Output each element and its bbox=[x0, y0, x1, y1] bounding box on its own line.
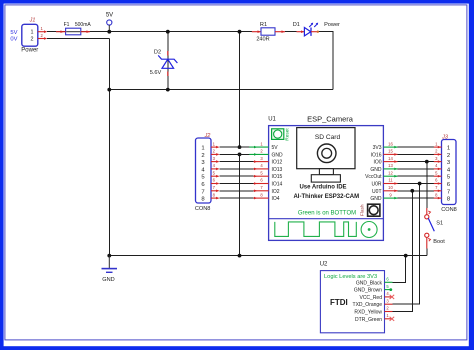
svg-text:5V: 5V bbox=[272, 145, 279, 151]
wire J2 pin5 to U1 pin5 bbox=[220, 175, 254, 177]
svg-text:10: 10 bbox=[388, 185, 393, 190]
svg-text:5.6V: 5.6V bbox=[150, 70, 162, 76]
svg-text:13: 13 bbox=[388, 163, 393, 168]
pin stub J3 pin7 bbox=[434, 190, 442, 192]
wire U1 pin15 to J3 pin2 bbox=[398, 153, 434, 155]
svg-text:15: 15 bbox=[388, 149, 393, 154]
svg-text:Reset: Reset bbox=[285, 128, 291, 141]
wire J2 pin7 to U1 pin7 bbox=[220, 190, 254, 192]
svg-text:7: 7 bbox=[447, 189, 450, 195]
pin stub J3 pin1 bbox=[434, 146, 442, 148]
pin stub U1 pin7 bbox=[254, 190, 269, 192]
svg-text:11: 11 bbox=[388, 178, 393, 183]
pin stub U2 pin1 unconnected bbox=[385, 313, 395, 321]
pin stub U1 pin12 bbox=[383, 175, 397, 177]
svg-text:IO15: IO15 bbox=[272, 174, 283, 180]
svg-text:7: 7 bbox=[201, 189, 204, 195]
SD card / camera drawing inside U1 bbox=[297, 128, 355, 182]
wire GND vertical from J2 pin2 row to ground rail bbox=[239, 154, 241, 255]
svg-text:U1: U1 bbox=[268, 116, 276, 122]
pin stub J3 pin4 bbox=[434, 168, 442, 170]
module U2 FTDI body bbox=[320, 262, 385, 333]
pin stub J2 pin2 bbox=[211, 153, 219, 155]
svg-text:2: 2 bbox=[201, 153, 204, 159]
pin stub U1 pin14 bbox=[383, 161, 397, 163]
pin stub U2 pin5 bbox=[385, 284, 393, 291]
svg-text:GND: GND bbox=[370, 196, 382, 202]
wire J2 pin4 to U1 pin4 bbox=[220, 168, 254, 170]
wire 0V vertical down left bbox=[108, 39, 110, 256]
svg-text:2: 2 bbox=[31, 36, 34, 42]
svg-text:AI-Thinker ESP32-CAM: AI-Thinker ESP32-CAM bbox=[293, 194, 359, 200]
connector J3 bbox=[441, 134, 457, 213]
svg-text:1: 1 bbox=[31, 30, 34, 36]
reset button inside U1 bbox=[272, 128, 291, 141]
wire zener branch vertical bbox=[167, 32, 169, 90]
svg-text:14: 14 bbox=[388, 156, 393, 161]
svg-text:Power: Power bbox=[21, 48, 38, 54]
node junction U0T row bbox=[410, 189, 414, 193]
svg-text:Use Arduino IDE: Use Arduino IDE bbox=[299, 185, 346, 191]
svg-text:VCC_Red: VCC_Red bbox=[359, 295, 382, 301]
switch S1 Boot bbox=[425, 208, 446, 249]
zener diode D2 bbox=[150, 50, 178, 77]
svg-text:D2: D2 bbox=[154, 50, 161, 56]
svg-text:Flash: Flash bbox=[360, 204, 366, 216]
svg-text:IO0: IO0 bbox=[373, 160, 381, 166]
pin stub U2 pin3 bbox=[385, 298, 393, 304]
pin stub J2 pin1 bbox=[211, 146, 219, 148]
svg-text:12: 12 bbox=[388, 170, 393, 175]
pin stub J2 pin4 bbox=[211, 168, 219, 170]
wire LED return horizontal y=89.6 bbox=[109, 89, 333, 91]
svg-text:16: 16 bbox=[388, 141, 393, 146]
svg-text:Boot: Boot bbox=[433, 239, 445, 245]
svg-text:Power: Power bbox=[324, 22, 340, 28]
wire J2 pin2 to U1 pin2 bbox=[220, 153, 254, 155]
pin stub U1 pin9 bbox=[383, 197, 397, 199]
wire FTDI GND_Black to ground rail bbox=[393, 256, 406, 283]
resistor R1 bbox=[252, 22, 285, 43]
antenna circle inside U1 bbox=[361, 222, 377, 238]
pin stub J3 pin5 bbox=[434, 175, 442, 177]
pin stub U1 pin15 bbox=[383, 153, 397, 155]
pin stub U1 pin13 bbox=[383, 168, 397, 170]
pin stub U2 pin2 bbox=[385, 306, 393, 312]
svg-text:1: 1 bbox=[201, 146, 204, 152]
svg-text:SD Card: SD Card bbox=[315, 134, 341, 141]
svg-text:FTDI: FTDI bbox=[330, 298, 348, 307]
svg-text:DTR_Green: DTR_Green bbox=[355, 317, 382, 323]
node junction 5V at J2 pin1 row bbox=[238, 145, 242, 149]
pin stub U1 pin8 bbox=[254, 197, 269, 199]
pin stub U1 pin2 bbox=[249, 153, 268, 155]
svg-text:CON8: CON8 bbox=[195, 206, 211, 212]
pin stub J2 pin7 bbox=[211, 190, 219, 192]
svg-text:240R: 240R bbox=[256, 37, 269, 43]
wire J1 pin2 0V horizontal bbox=[47, 38, 109, 40]
pin stub J3 pin8 bbox=[434, 197, 442, 199]
svg-text:5V: 5V bbox=[10, 30, 17, 36]
svg-text:VccOut: VccOut bbox=[365, 174, 382, 180]
svg-text:F1: F1 bbox=[64, 22, 70, 28]
pin stub J2 pin5 bbox=[211, 175, 219, 177]
pin stub U1 pin3 bbox=[254, 161, 269, 163]
svg-text:0V: 0V bbox=[10, 37, 17, 43]
node junction GND_Black at rail bbox=[404, 254, 408, 258]
svg-text:2: 2 bbox=[447, 153, 450, 159]
connector J2 bbox=[195, 133, 211, 212]
node junction IO0 row bbox=[425, 160, 429, 164]
svg-text:CON8: CON8 bbox=[441, 207, 457, 213]
wire U1 pin10 to J3 pin7 bbox=[398, 190, 434, 192]
wire J2 pin8 to U1 pin8 bbox=[220, 197, 254, 199]
wire J2 pin1 to U1 pin1 bbox=[220, 146, 254, 148]
svg-text:U0R: U0R bbox=[371, 182, 381, 188]
svg-text:GND: GND bbox=[272, 152, 284, 158]
node junction GND at J2 pin2 row bbox=[238, 153, 242, 157]
node junction GND column at ground rail bbox=[238, 254, 242, 258]
node junction zener top bbox=[166, 30, 170, 34]
wire U1 pin12 to J3 pin5 bbox=[398, 175, 434, 177]
node junction 0V at ground rail bbox=[107, 254, 111, 258]
svg-text:RXD_Yellow: RXD_Yellow bbox=[354, 310, 382, 316]
svg-text:R1: R1 bbox=[260, 22, 267, 28]
pin stub U1 pin11 bbox=[383, 183, 397, 185]
svg-text:GND: GND bbox=[102, 277, 114, 283]
wire U1 pin14 to J3 pin3 bbox=[398, 161, 434, 163]
waveform graphic inside U1 bbox=[275, 222, 357, 237]
svg-text:GND_Black: GND_Black bbox=[356, 280, 383, 286]
wire U1 pin13 to J3 pin4 bbox=[398, 168, 434, 170]
svg-text:GND_Brown: GND_Brown bbox=[354, 288, 382, 294]
fuse F1 bbox=[56, 22, 91, 35]
flash button inside U1 bbox=[360, 204, 380, 216]
wire 5V rail top: fuse to R1 junction bbox=[81, 31, 252, 33]
LED D1 bbox=[293, 22, 340, 36]
svg-text:1: 1 bbox=[447, 146, 450, 152]
svg-text:500mA: 500mA bbox=[75, 22, 92, 28]
svg-text:IO14: IO14 bbox=[272, 182, 283, 188]
node junction 5V column top bbox=[238, 30, 242, 34]
svg-text:5V: 5V bbox=[106, 13, 113, 19]
svg-text:S1: S1 bbox=[436, 221, 443, 227]
svg-text:Green is on BOTTOM: Green is on BOTTOM bbox=[298, 210, 356, 216]
node junction zener bottom bbox=[166, 88, 170, 92]
pin stub U1 pin16 bbox=[383, 146, 397, 148]
pin stub U1 pin6 bbox=[254, 183, 269, 185]
wire J2 pin6 to U1 pin6 bbox=[220, 183, 254, 185]
wire J2 pin3 to U1 pin3 bbox=[220, 161, 254, 163]
pin stub J3 pin6 bbox=[434, 183, 442, 185]
pin stub U2 pin6 bbox=[385, 277, 393, 283]
svg-text:IO4: IO4 bbox=[272, 196, 280, 202]
pin stub U1 pin1 bbox=[249, 146, 268, 148]
wire U1 pin16 to J3 pin1 bbox=[398, 146, 434, 148]
5V power terminal bbox=[106, 13, 113, 32]
svg-text:U2: U2 bbox=[320, 262, 328, 268]
wire D1 to corner down to LED return bbox=[319, 32, 334, 90]
svg-text:IO13: IO13 bbox=[272, 167, 283, 173]
pin stub U2 pin4 unconnected bbox=[385, 291, 395, 299]
module U1 ESP_Camera body bbox=[268, 114, 383, 240]
pin stub J3 pin2 bbox=[434, 153, 442, 155]
pin stub U1 pin5 bbox=[254, 175, 269, 177]
svg-text:IO12: IO12 bbox=[272, 160, 283, 166]
wire IO0 row to switch S1 bbox=[426, 162, 428, 208]
svg-text:Logic Levels are 3V3: Logic Levels are 3V3 bbox=[324, 274, 377, 280]
wire switch bottom to ground rail bbox=[426, 249, 428, 256]
wire U0T row down to FTDI RXD bbox=[393, 191, 413, 312]
wire 5V rail top: J1 pin1 to fuse bbox=[47, 31, 66, 33]
pin stub U1 pin4 bbox=[254, 168, 269, 170]
wire ground rail bottom bbox=[109, 255, 427, 257]
svg-text:J1: J1 bbox=[29, 18, 36, 24]
pin stub J3 pin3 bbox=[434, 161, 442, 163]
node junction 0V at LED return bbox=[107, 88, 111, 92]
pin stub U1 pin10 bbox=[383, 190, 397, 192]
pin stub J2 pin3 bbox=[211, 161, 219, 163]
svg-text:IO16: IO16 bbox=[371, 152, 382, 158]
svg-text:ESP_Camera: ESP_Camera bbox=[307, 114, 354, 123]
pin stub J2 pin8 bbox=[211, 197, 219, 199]
ground symbol bottom left bbox=[102, 256, 118, 283]
wire 5V vertical to J2 pin1 row bbox=[239, 32, 241, 147]
pin stub J2 pin6 bbox=[211, 183, 219, 185]
svg-text:D1: D1 bbox=[293, 22, 300, 28]
node junction U0R row bbox=[418, 182, 422, 186]
connector J1 bbox=[21, 18, 47, 54]
wire R1 to D1 bbox=[285, 31, 297, 33]
wire U0R row down to FTDI TXD bbox=[393, 184, 420, 305]
node junction 5V terminal bbox=[107, 30, 111, 34]
wire U1 pin9 to J3 pin8 bbox=[398, 197, 434, 199]
svg-text:GND: GND bbox=[370, 167, 382, 173]
svg-text:U0T: U0T bbox=[372, 189, 381, 195]
wire U1 pin11 to J3 pin6 bbox=[398, 183, 434, 185]
svg-text:3V3: 3V3 bbox=[373, 145, 382, 151]
svg-text:TXD_Orange: TXD_Orange bbox=[353, 302, 383, 308]
svg-text:IO2: IO2 bbox=[272, 189, 280, 195]
